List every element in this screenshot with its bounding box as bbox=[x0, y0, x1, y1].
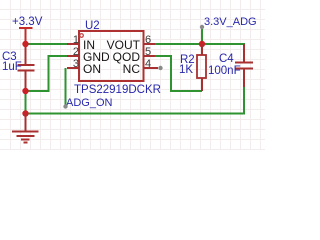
capacitor C4 bbox=[235, 44, 253, 87]
svg-text:ON: ON bbox=[83, 62, 101, 76]
svg-text:3: 3 bbox=[73, 58, 79, 70]
pin 5 QOD stub bbox=[144, 55, 156, 57]
op IC U2 body TPS22919DCKR bbox=[79, 31, 144, 81]
wire stub up to 3.3V_ADG label bbox=[201, 28, 203, 44]
svg-text:C4: C4 bbox=[219, 53, 234, 65]
pin 2 GND stub bbox=[67, 55, 79, 57]
wire ground vertical junction1-junction2 bbox=[25, 91, 27, 114]
wire GND pin2 to ground junction bbox=[26, 56, 68, 91]
svg-text:ADG_ON: ADG_ON bbox=[66, 97, 113, 109]
svg-text:6: 6 bbox=[145, 34, 151, 46]
svg-text:100nF: 100nF bbox=[208, 65, 241, 77]
svg-text:3.3V_ADG: 3.3V_ADG bbox=[204, 16, 257, 28]
junction node (25.5,91) bbox=[22, 88, 28, 94]
wire ON pin3 down to ADG_ON stub bbox=[65, 68, 67, 106]
wire net +3.3V to IN pin1 bbox=[26, 43, 68, 45]
svg-text:1K: 1K bbox=[179, 64, 193, 76]
pin 3 ON stub bbox=[67, 67, 79, 69]
node dot ADG_ON anchor bbox=[63, 104, 67, 108]
pin 6 VOUT stub bbox=[144, 43, 156, 45]
junction node (25.5,113.5) bbox=[22, 110, 28, 116]
U1 origin circle marker bbox=[80, 34, 84, 38]
pin 4 NC stub bbox=[144, 67, 159, 69]
ground bbox=[12, 114, 39, 143]
no-connect dot pin 4 bbox=[158, 66, 162, 70]
svg-text:+3.3V: +3.3V bbox=[12, 16, 43, 28]
resistor R2 bbox=[197, 44, 206, 91]
capacitor C3 bbox=[18, 44, 35, 91]
junction node (202,44) bbox=[199, 41, 205, 47]
wire ground bottom run to C4 bbox=[26, 87, 245, 114]
svg-text:TPS22919DCKR: TPS22919DCKR bbox=[74, 84, 161, 96]
wire VOUT pin6 to C4 top bbox=[155, 44, 244, 61]
power symbol +3.3V bbox=[19, 28, 33, 44]
svg-text:5: 5 bbox=[145, 46, 151, 58]
svg-text:4: 4 bbox=[145, 58, 151, 70]
svg-text:1: 1 bbox=[73, 34, 79, 46]
svg-text:NC: NC bbox=[123, 62, 141, 76]
svg-text:U2: U2 bbox=[85, 20, 100, 32]
svg-text:1uF: 1uF bbox=[2, 61, 22, 73]
wire QOD pin5 to R2 bottom bbox=[155, 56, 202, 91]
junction node A (25.5,44) bbox=[22, 41, 28, 47]
svg-text:2: 2 bbox=[73, 46, 79, 58]
pin 1 IN stub bbox=[67, 43, 79, 45]
node dot 3.3V_ADG anchor bbox=[200, 25, 204, 29]
